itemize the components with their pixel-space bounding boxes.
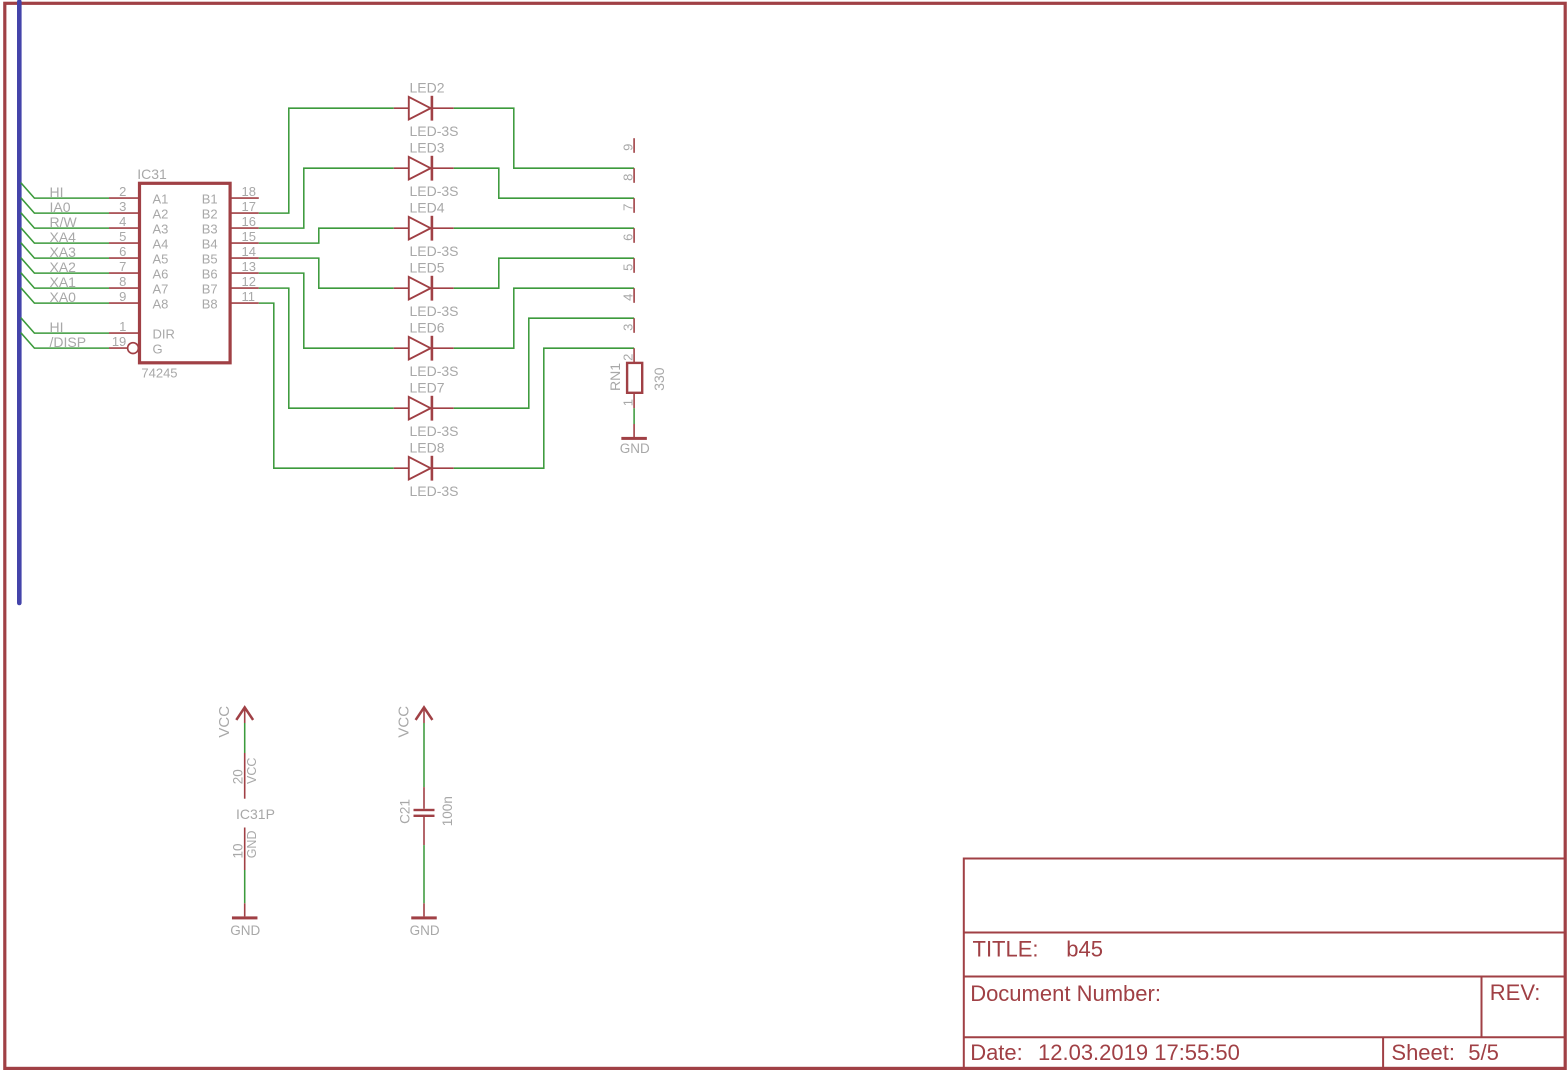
svg-text:12.03.2019 17:55:50: 12.03.2019 17:55:50 (1038, 1040, 1240, 1065)
bus (17, 2, 22, 604)
svg-text:14: 14 (242, 244, 256, 259)
wire pin 10 to GND (244, 870, 246, 903)
svg-text:4: 4 (119, 214, 126, 229)
ground (C21) (423, 903, 425, 916)
svg-text:A3: A3 (153, 221, 169, 236)
svg-text:LED-3S: LED-3S (410, 423, 459, 439)
title block (964, 858, 1565, 860)
svg-text:B3: B3 (202, 221, 218, 236)
pin 3 (A2) (109, 212, 141, 214)
svg-text:6: 6 (119, 244, 126, 259)
svg-text:LED-3S: LED-3S (410, 243, 459, 259)
svg-text:LED2: LED2 (410, 79, 445, 95)
svg-text:IA0: IA0 (50, 199, 71, 215)
wire net HI (21, 318, 109, 333)
svg-text:/DISP: /DISP (50, 334, 87, 350)
pin 12 (B7) (230, 287, 259, 289)
svg-text:LED-3S: LED-3S (410, 483, 459, 499)
svg-text:18: 18 (242, 184, 256, 199)
svg-text:RN1: RN1 (607, 363, 623, 391)
svg-text:A4: A4 (153, 236, 169, 251)
svg-text:4: 4 (621, 294, 636, 301)
svg-text:5: 5 (621, 264, 636, 271)
RN1 pin 6 stub (633, 228, 635, 243)
svg-text:GND: GND (410, 923, 440, 938)
RN1 pin 9 stub (633, 138, 635, 153)
svg-text:10: 10 (230, 843, 245, 858)
wire net XA2 (21, 258, 109, 273)
svg-text:B1: B1 (202, 191, 218, 206)
svg-text:20: 20 (230, 769, 245, 784)
wire LED4 to RN1 pin 6 (454, 227, 634, 229)
wire LED7 to RN1 pin 3 (454, 318, 634, 408)
svg-text:LED-3S: LED-3S (410, 303, 459, 319)
svg-text:3: 3 (621, 324, 636, 331)
pin 5 (A4) (109, 242, 141, 244)
pin 14 (B5) (230, 257, 259, 259)
svg-text:B5: B5 (202, 251, 218, 266)
wire net XA0 (21, 288, 109, 303)
wire B5 to LED5 (259, 258, 394, 288)
svg-text:19: 19 (112, 334, 126, 349)
svg-text:13: 13 (242, 259, 256, 274)
svg-text:1: 1 (119, 319, 126, 334)
svg-text:LED8: LED8 (410, 439, 445, 455)
RN1 pin 5 stub (633, 258, 635, 273)
svg-text:G: G (153, 341, 163, 356)
svg-text:8: 8 (119, 274, 126, 289)
pin 1 (DIR) (109, 332, 141, 334)
pin 16 (B3) (230, 227, 259, 229)
wire B4 to LED4 (259, 228, 394, 243)
RN1 pin 2 stub (633, 348, 635, 363)
svg-text:HI: HI (50, 184, 64, 200)
pin 18 (B1) (230, 197, 259, 199)
wire RN1 to GND (633, 408, 635, 424)
VCC symbol (IC31P) (236, 707, 253, 720)
ground (IC31P) (244, 903, 246, 916)
LED6 diode (394, 347, 454, 349)
wire C21 to GND (423, 845, 425, 903)
svg-text:7: 7 (621, 204, 636, 211)
svg-text:LED4: LED4 (410, 199, 445, 215)
svg-text:LED-3S: LED-3S (410, 363, 459, 379)
wire net XA3 (21, 243, 109, 258)
pin 13 (B6) (230, 272, 259, 274)
wire B6 to LED6 (259, 273, 394, 348)
pin 10 (GND) (244, 828, 246, 871)
pin 11 (B8) (230, 302, 259, 304)
svg-text:330: 330 (651, 367, 667, 391)
RN1 pin 4 stub (633, 288, 635, 303)
wire B8 to LED8 (259, 303, 394, 468)
svg-text:B6: B6 (202, 266, 218, 281)
wire VCC to C21 (423, 723, 425, 787)
svg-text:VCC: VCC (395, 706, 412, 738)
LED4 diode (394, 227, 454, 229)
RN1 pin 3 stub (633, 318, 635, 333)
svg-text:A1: A1 (153, 191, 169, 206)
svg-text:VCC: VCC (216, 706, 233, 738)
wire LED6 to RN1 pin 4 (454, 288, 634, 348)
wire net HI (21, 183, 109, 198)
svg-text:11: 11 (242, 289, 256, 304)
RN1 pin 8 stub (633, 168, 635, 183)
svg-text:12: 12 (242, 274, 256, 289)
wire net XA1 (21, 273, 109, 288)
svg-text:3: 3 (119, 199, 126, 214)
svg-text:TITLE:: TITLE: (973, 936, 1039, 961)
resistor RN1 body (627, 363, 642, 393)
svg-text:9: 9 (621, 144, 636, 151)
svg-text:GND: GND (230, 923, 260, 938)
svg-text:17: 17 (242, 199, 256, 214)
svg-text:XA2: XA2 (50, 259, 77, 275)
LED5 diode (394, 287, 454, 289)
svg-text:7: 7 (119, 259, 126, 274)
svg-text:HI: HI (50, 319, 64, 335)
svg-text:A7: A7 (153, 281, 169, 296)
svg-text:DIR: DIR (153, 326, 175, 341)
svg-text:15: 15 (242, 229, 256, 244)
wire B3 to LED3 (259, 168, 394, 228)
pin 6 (A5) (109, 257, 141, 259)
wire net IA0 (21, 198, 109, 213)
wire net R/W (21, 213, 109, 228)
svg-text:Sheet:: Sheet: (1391, 1040, 1455, 1065)
wire B7 to LED7 (259, 288, 394, 408)
VCC symbol (C21) (416, 707, 433, 720)
svg-text:XA3: XA3 (50, 244, 77, 260)
LED8 diode (394, 467, 454, 469)
svg-text:Document Number:: Document Number: (970, 981, 1161, 1006)
svg-text:2: 2 (119, 184, 126, 199)
svg-text:IC31: IC31 (137, 166, 167, 182)
RN1 pin 1 stub (633, 394, 635, 409)
svg-text:IC31P: IC31P (236, 806, 275, 822)
svg-text:b45: b45 (1066, 936, 1103, 961)
svg-text:100n: 100n (440, 796, 455, 826)
svg-text:9: 9 (119, 289, 126, 304)
svg-text:5/5: 5/5 (1468, 1040, 1499, 1065)
pin 19 (G) (109, 347, 128, 349)
svg-text:5: 5 (119, 229, 126, 244)
svg-text:A5: A5 (153, 251, 169, 266)
pin 4 (A3) (109, 227, 141, 229)
IC31 body (140, 183, 231, 362)
svg-text:A2: A2 (153, 206, 169, 221)
wire LED2 to RN1 pin 8 (454, 108, 634, 168)
svg-text:XA1: XA1 (50, 274, 77, 290)
pin 7 (A6) (109, 272, 141, 274)
capacitor C21 (423, 787, 425, 809)
svg-text:VCC: VCC (245, 758, 259, 784)
svg-text:8: 8 (621, 174, 636, 181)
svg-text:LED7: LED7 (410, 379, 445, 395)
svg-text:A6: A6 (153, 266, 169, 281)
svg-text:6: 6 (621, 234, 636, 241)
svg-text:16: 16 (242, 214, 256, 229)
svg-text:2: 2 (621, 354, 636, 361)
wire LED3 to RN1 pin 7 (454, 168, 634, 198)
pin 19 inversion bubble (128, 343, 139, 354)
svg-text:B2: B2 (202, 206, 218, 221)
svg-text:REV:: REV: (1490, 980, 1541, 1005)
LED3 diode (394, 167, 454, 169)
svg-text:B7: B7 (202, 281, 218, 296)
svg-text:LED6: LED6 (410, 319, 445, 335)
svg-text:C21: C21 (398, 799, 413, 824)
pin 8 (A7) (109, 287, 141, 289)
svg-text:GND: GND (620, 441, 650, 456)
svg-text:LED-3S: LED-3S (410, 123, 459, 139)
svg-text:LED3: LED3 (410, 139, 445, 155)
pin 15 (B4) (230, 242, 259, 244)
pin 2 (A1) (109, 197, 141, 199)
wire LED8 to RN1 pin 2 (454, 348, 634, 468)
svg-text:XA4: XA4 (50, 229, 77, 245)
svg-text:B4: B4 (202, 236, 218, 251)
pin 17 (B2) (230, 212, 259, 214)
LED7 diode (394, 407, 454, 409)
wire net XA4 (21, 228, 109, 243)
svg-text:LED5: LED5 (410, 259, 445, 275)
svg-text:Date:: Date: (970, 1040, 1023, 1065)
ground (RN1) (633, 424, 635, 437)
svg-text:74245: 74245 (141, 366, 177, 381)
wire VCC to pin 20 (244, 723, 246, 753)
svg-text:B8: B8 (202, 296, 218, 311)
svg-text:A8: A8 (153, 296, 169, 311)
pin 9 (A8) (109, 302, 141, 304)
RN1 pin 7 stub (633, 198, 635, 213)
pin 20 (VCC) (244, 753, 246, 799)
svg-text:R/W: R/W (50, 214, 78, 230)
svg-text:1: 1 (621, 399, 636, 406)
wire net /DISP (21, 333, 109, 348)
wire LED5 to RN1 pin 5 (454, 258, 634, 288)
wire B2 to LED2 (259, 108, 394, 213)
svg-text:XA0: XA0 (50, 289, 77, 305)
LED2 diode (394, 107, 454, 109)
svg-text:LED-3S: LED-3S (410, 183, 459, 199)
svg-text:GND: GND (245, 831, 259, 859)
